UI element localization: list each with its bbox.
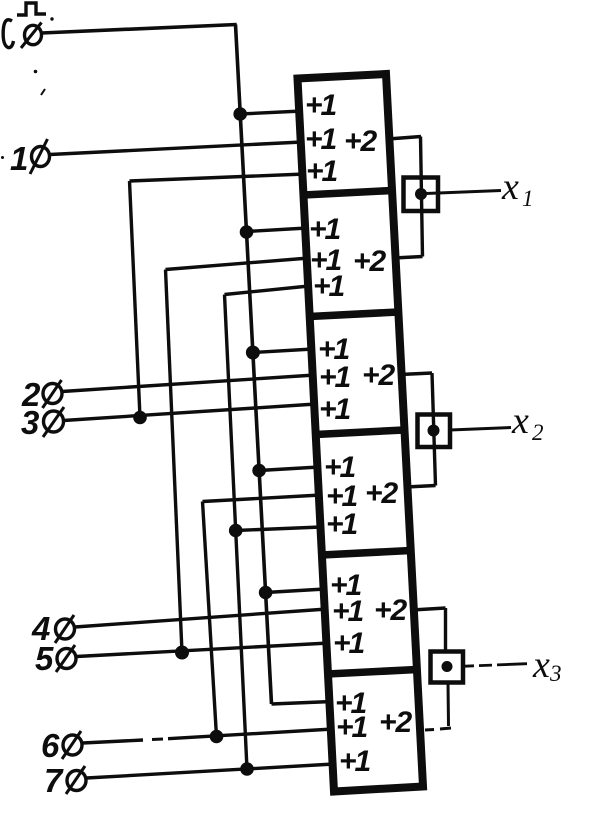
svg-text:3: 3 (21, 404, 39, 441)
junction 7 branch (241, 763, 254, 776)
wire to label x1 (426, 191, 501, 194)
svg-text:x: x (511, 400, 529, 442)
clock pulse symbol (17, 3, 46, 15)
wire box3 out (400, 373, 432, 375)
terminal 2 (43, 384, 62, 404)
separator box3/box4 (316, 430, 405, 435)
svg-text:+1: +1 (319, 361, 351, 394)
wire 3 to box1 row3 (130, 174, 306, 181)
stray dash (420, 747, 421, 759)
wire 2 to box3 row2 (62, 375, 315, 392)
wire 7 to box2 row3 (225, 286, 310, 295)
terminal 5 (57, 649, 76, 669)
svg-text:+2: +2 (374, 594, 408, 627)
node dot x3 (442, 662, 452, 672)
svg-text:1: 1 (522, 186, 534, 211)
speck (41, 89, 45, 95)
wire to label x2 (450, 428, 511, 431)
junction 5 branch (176, 646, 189, 659)
junction 3 branch (134, 411, 147, 424)
counter column outline (298, 74, 424, 792)
junction c box2 (240, 226, 253, 239)
junction c box4 (253, 464, 266, 477)
svg-text:+1: +1 (313, 270, 345, 303)
wire 5 to box5 row3 (77, 643, 330, 657)
wire box6 out (dashed) (425, 728, 434, 732)
wire box1 out (388, 137, 421, 140)
svg-text:2: 2 (532, 420, 544, 445)
svg-text:7: 7 (44, 762, 64, 799)
svg-text:x: x (501, 166, 519, 208)
wire c vertical bus (236, 25, 272, 705)
speck (1, 156, 4, 159)
svg-text:+2: +2 (344, 125, 378, 158)
separator box5/box6 (328, 670, 418, 675)
svg-text:+2: +2 (362, 359, 396, 392)
svg-text:+1: +1 (339, 745, 371, 778)
wire 6 to box4 row2 (203, 495, 322, 502)
speck (50, 17, 53, 20)
wire vertical to x2 node (432, 373, 436, 486)
speck (34, 70, 38, 74)
node dot x1 (416, 189, 427, 200)
wire box2 out (394, 257, 423, 259)
svg-text:+1: +1 (305, 123, 337, 156)
wire c to box1 row1 (240, 111, 302, 114)
svg-text:3: 3 (549, 661, 562, 686)
wire c to box3 row1 (253, 349, 313, 353)
wire 1 to box1 row2 (50, 142, 302, 155)
svg-text:+1: +1 (326, 508, 358, 541)
output square x1 (404, 178, 439, 212)
svg-text:+1: +1 (319, 393, 351, 426)
wire vertical to x3 node (444, 608, 447, 652)
wire 7 to box6 row3 (87, 764, 335, 778)
svg-text:+1: +1 (305, 89, 337, 122)
wire 6 to box6 row2 (dashed start) (83, 740, 144, 743)
svg-text:x: x (532, 644, 550, 686)
svg-text:+1: +1 (309, 213, 341, 246)
svg-text:+1: +1 (306, 155, 338, 188)
wire box5 out (412, 608, 446, 610)
output square x2 (418, 415, 451, 448)
svg-text:+1: +1 (332, 595, 364, 628)
node dot x2 (428, 425, 439, 436)
terminal c (25, 25, 42, 44)
wire 4 to box5 row2 (75, 609, 327, 627)
separator box2/box3 (310, 312, 399, 317)
junction 6 branch (210, 730, 223, 743)
svg-text:+2: +2 (365, 477, 399, 510)
junction c box1 (234, 108, 247, 121)
junction c box5 (259, 586, 272, 599)
output square x3 (431, 652, 464, 683)
wire c to box5 row1 (266, 589, 326, 593)
wire box4 out (406, 486, 436, 488)
separator box4/box5 (322, 551, 411, 556)
wire below x3 square (447, 683, 451, 727)
wire 5 vertical riser (166, 270, 183, 653)
wire 5 to box2 row2 (166, 258, 310, 270)
svg-text:1: 1 (10, 140, 28, 177)
wire vertical to x1 node (421, 137, 423, 257)
wire 6 vertical riser (203, 502, 217, 737)
wire to label x3 (dashed) (462, 664, 474, 667)
terminal 3 (44, 411, 64, 432)
wire c to box2 row1 (247, 228, 308, 232)
wire 3 vertical riser (130, 181, 141, 418)
terminal 7 (67, 771, 86, 791)
junction 7 box4 (229, 524, 242, 537)
wire 7 vertical riser (225, 295, 248, 770)
wire c horizontal (42, 25, 237, 34)
wire c to box4 row1 (259, 467, 319, 471)
separator box1/box2 (304, 191, 393, 196)
svg-text:6: 6 (41, 727, 60, 764)
junction c box3 (246, 346, 259, 359)
wire 3 to box3 row3 (64, 404, 317, 421)
wire 7 to box4 row3 (236, 527, 321, 531)
wire c to box6 row1 (272, 702, 333, 705)
svg-text:+1: +1 (333, 627, 365, 660)
terminal 1 (32, 147, 50, 167)
terminal 6 (63, 735, 82, 755)
svg-text:5: 5 (35, 640, 54, 677)
terminal 4 (56, 619, 75, 639)
label c (clock input) (3, 20, 13, 48)
svg-text:+1: +1 (336, 711, 368, 744)
svg-text:+2: +2 (353, 245, 387, 278)
svg-text:+2: +2 (379, 706, 413, 739)
